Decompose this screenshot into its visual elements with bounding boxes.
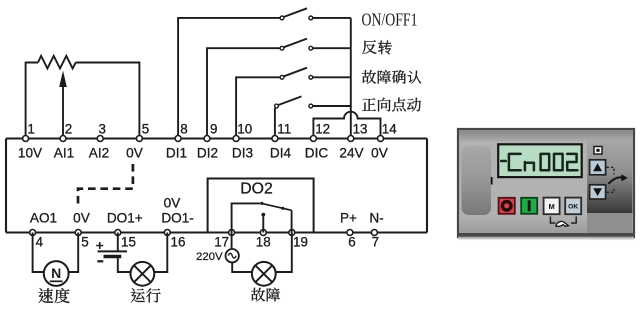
wire terminal 15 down to battery bbox=[117, 233, 119, 252]
wire DI1 terminal 8 to switch S1 bbox=[178, 18, 280, 139]
wire DI2 terminal 9 to switch S2 bbox=[207, 48, 280, 138]
svg-text:DI1: DI1 bbox=[166, 146, 187, 161]
terminal function labels bottom strip bbox=[30, 211, 384, 226]
svg-text:DO1-: DO1- bbox=[161, 211, 193, 226]
DO2 relay box bbox=[208, 179, 314, 233]
svg-text:220V: 220V bbox=[196, 251, 223, 263]
BOP up button bbox=[590, 160, 606, 175]
wire DI3 terminal 10 to switch S3 bbox=[236, 77, 280, 138]
svg-text:12: 12 bbox=[315, 121, 330, 136]
svg-text:11: 11 bbox=[277, 121, 291, 136]
svg-text:1: 1 bbox=[27, 121, 34, 136]
wire fault lamp to terminal 19 bbox=[276, 233, 292, 273]
BOP M button bbox=[544, 198, 560, 215]
label run bbox=[131, 288, 161, 302]
svg-text:16: 16 bbox=[171, 234, 186, 249]
svg-text:18: 18 bbox=[256, 234, 271, 249]
BOP LCD display bbox=[498, 144, 582, 177]
svg-text:0V: 0V bbox=[126, 146, 143, 161]
wire from potentiometer to terminal 5 bbox=[76, 63, 140, 139]
relay actuator pin terminal 18 bbox=[262, 217, 264, 233]
BOP hand icon with brackets bbox=[550, 217, 576, 224]
BOP run button (green I) bbox=[521, 198, 537, 214]
wire AC source to fault lamp bbox=[232, 262, 252, 272]
switch S3 fault ack bbox=[280, 68, 351, 80]
wire speed meter to terminal 5 bbox=[69, 233, 79, 273]
svg-text:3: 3 bbox=[99, 121, 106, 136]
svg-text:15: 15 bbox=[121, 234, 136, 249]
svg-text:N-: N- bbox=[369, 211, 383, 226]
BOP operator panel body bbox=[458, 129, 634, 240]
terminals bottom strip nodes 4 5 15 16 17 18 19 6 7 bbox=[30, 230, 378, 236]
wire battery to run lamp bbox=[118, 257, 131, 273]
terminal function labels top strip bbox=[18, 146, 388, 161]
wire from terminal 1 up to potentiometer bbox=[26, 63, 38, 139]
svg-text:4: 4 bbox=[36, 234, 44, 249]
svg-text:5: 5 bbox=[81, 234, 88, 249]
svg-text:0V: 0V bbox=[73, 211, 90, 226]
svg-text:2: 2 bbox=[65, 121, 72, 136]
label fault acknowledge bbox=[362, 70, 421, 84]
wire jumper DIC terminal 12 to 0V terminal 14 with hop over 24V line bbox=[313, 112, 380, 139]
svg-text:6: 6 bbox=[348, 234, 355, 249]
pin numbers bottom strip bbox=[36, 234, 379, 249]
svg-text:AI1: AI1 bbox=[54, 146, 74, 161]
LCD mark bbox=[491, 177, 493, 185]
wire terminal 17 down to AC source bbox=[231, 233, 233, 250]
svg-text:N: N bbox=[51, 265, 61, 281]
svg-text:DO2: DO2 bbox=[240, 180, 272, 197]
svg-text:7: 7 bbox=[372, 234, 379, 249]
label fault bbox=[251, 288, 280, 302]
pin numbers top strip bbox=[27, 121, 397, 136]
dashed wire linking top 0V to bottom 0V bbox=[78, 164, 133, 207]
svg-text:DI3: DI3 bbox=[232, 146, 253, 161]
svg-text:17: 17 bbox=[214, 234, 229, 249]
potentiometer wiper arrow into AI1 (terminal 2) bbox=[62, 86, 64, 139]
svg-text:8: 8 bbox=[180, 121, 187, 136]
svg-text:DIC: DIC bbox=[305, 146, 329, 161]
svg-text:0V: 0V bbox=[371, 146, 388, 161]
battery B1 bbox=[98, 250, 127, 252]
svg-text:AO1: AO1 bbox=[30, 211, 57, 226]
label speed bbox=[38, 288, 69, 303]
svg-text:10V: 10V bbox=[18, 146, 42, 161]
svg-text:9: 9 bbox=[210, 121, 217, 136]
svg-text:24V: 24V bbox=[339, 146, 363, 161]
switch S1 ON/OFF1 bbox=[280, 8, 351, 19]
meter M1 speed indicator N bbox=[44, 261, 69, 286]
wire: inverter body outline (terminal strips) bbox=[6, 139, 427, 233]
svg-text:ON/OFF1: ON/OFF1 bbox=[362, 10, 418, 30]
LCD 7-segment reading -Cn002 bbox=[501, 154, 577, 170]
wire relay contact down to terminal 19 bbox=[291, 210, 293, 232]
svg-text:14: 14 bbox=[382, 121, 397, 136]
BOP indicator square bbox=[594, 147, 602, 155]
lamp H1 run bbox=[131, 262, 155, 286]
label jog forward bbox=[362, 98, 421, 112]
svg-text:M: M bbox=[548, 202, 554, 211]
svg-text:0V: 0V bbox=[164, 195, 181, 210]
switch S2 reverse bbox=[280, 39, 351, 51]
resistor R1 potentiometer zigzag bbox=[38, 56, 76, 69]
AC source 220V bbox=[226, 249, 239, 262]
BOP OK button bbox=[565, 198, 581, 215]
svg-text:19: 19 bbox=[293, 234, 308, 249]
svg-text:DI2: DI2 bbox=[197, 146, 218, 161]
wire DI4 terminal 11 up to switch S4 bbox=[274, 108, 276, 139]
wire run lamp to terminal 16 bbox=[154, 233, 167, 273]
label fan-zhuan (reverse) bbox=[362, 40, 392, 54]
switch S4 jog forward bbox=[275, 96, 351, 108]
svg-text:OK: OK bbox=[568, 203, 578, 210]
svg-text:13: 13 bbox=[353, 121, 368, 136]
svg-text:P+: P+ bbox=[340, 211, 357, 226]
svg-text:10: 10 bbox=[237, 121, 252, 136]
BOP selector dashed link and arrow bbox=[607, 167, 615, 192]
wire terminal 17 up to relay contact bbox=[232, 203, 260, 232]
svg-text:5: 5 bbox=[142, 121, 149, 136]
relay K1 changeover contact bbox=[260, 202, 263, 205]
svg-text:DO1+: DO1+ bbox=[107, 211, 143, 226]
wire terminal 4 to speed meter bbox=[33, 233, 44, 273]
svg-text:AI2: AI2 bbox=[89, 146, 109, 161]
BOP stop button (red O) bbox=[499, 198, 515, 214]
BOP down button bbox=[590, 185, 606, 199]
wire 24V bus down to terminal 13 bbox=[350, 18, 352, 139]
lamp H2 fault bbox=[252, 262, 276, 286]
terminals top strip nodes 1 2 3 5 8 9 10 11 12 13 14 bbox=[23, 136, 384, 142]
svg-text:DI4: DI4 bbox=[270, 146, 292, 161]
